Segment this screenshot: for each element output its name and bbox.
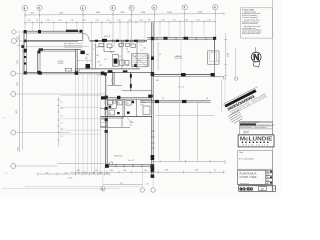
svg-text:0.9: 0.9: [147, 57, 149, 59]
svg-text:1.05: 1.05: [65, 172, 68, 174]
svg-text:2/1/: 2/1/: [243, 130, 249, 135]
svg-text:1.10: 1.10: [59, 20, 62, 22]
svg-text:1.5: 1.5: [214, 170, 216, 172]
svg-text:4.05: 4.05: [16, 110, 18, 113]
svg-text:19: 19: [261, 187, 264, 191]
svg-text:ba: ba: [118, 102, 120, 104]
svg-text:2.95 x 4.05: 2.95 x 4.05: [96, 46, 104, 48]
closet lines living side: [77, 60, 92, 62]
bedroom bottom wall: [106, 164, 152, 166]
svg-text:.65: .65: [100, 172, 102, 174]
spine wall lower: [151, 74, 153, 177]
svg-text:mclundie@architects.com: mclundie@architects.com: [257, 123, 275, 126]
grid bubble 7: [182, 5, 187, 10]
entry pier: [102, 39, 107, 42]
garage top windows ticks: [157, 37, 206, 40]
svg-text:11.2: 11.2: [130, 124, 133, 126]
svg-text:2.300: 2.300: [141, 12, 145, 14]
svg-text:1.2: 1.2: [61, 102, 63, 104]
svg-text:1.20: 1.20: [16, 37, 19, 39]
page border right: [272, 0, 274, 192]
svg-text:1.1: 1.1: [119, 56, 121, 58]
svg-text:3.000: 3.000: [167, 12, 171, 14]
svg-text:1.500: 1.500: [227, 53, 229, 57]
wall G bottom of garage block: [140, 100, 211, 102]
bottom-left terrace line: [57, 163, 110, 165]
left mid dim rail: [58, 97, 60, 147]
svg-text:t. 971 40 32 32 f. 971 40 32: t. 971 40 32 32 f. 971 40 32 33: [241, 120, 260, 123]
svg-text:1.850: 1.850: [120, 12, 124, 14]
svg-text:COTAS Y REF.: COTAS Y REF.: [240, 175, 258, 179]
grid bubble 2: [37, 5, 42, 10]
garage right wall: [214, 39, 216, 64]
svg-text:ROOM: ROOM: [58, 63, 64, 65]
patio bottom line: [153, 160, 226, 162]
faint lower-left mark: [3, 117, 6, 118]
svg-text:1.50: 1.50: [162, 20, 165, 22]
stamp fragment lower-left: [228, 110, 243, 124]
faint page bottom line: [25, 186, 140, 188]
column at entry: [80, 30, 83, 33]
svg-text:1.20: 1.20: [129, 20, 132, 22]
living top wall: [40, 48, 81, 50]
svg-text:1.0: 1.0: [140, 45, 142, 47]
title block rows: [239, 121, 272, 134]
svg-text:4.60 x 6.00: 4.60 x 6.00: [174, 58, 182, 60]
svg-text:1.50: 1.50: [18, 147, 20, 150]
left grid bubble A (diamond): [11, 29, 24, 34]
left grid bubble B: [11, 39, 24, 44]
tiny bubble right: [235, 77, 238, 80]
svg-text:0.90 1.20: 0.90 1.20: [104, 36, 110, 38]
svg-text:rev: rev: [267, 180, 270, 182]
fixtures above wall B: [137, 40, 144, 42]
left grid bubble D: [11, 92, 105, 97]
mid zone wall x=130.8: [130, 72, 132, 91]
verticals dropping to dims: [76, 146, 105, 174]
svg-text:N: N: [253, 52, 259, 62]
svg-text:dib: dib: [267, 172, 270, 174]
svg-text:NOTA DE OBRAS: NOTA DE OBRAS: [242, 8, 254, 11]
svg-text:— Las dimensiones de las: — Las dimensiones de las: [242, 20, 260, 22]
grid bubble 1: [22, 5, 27, 10]
wall B dark segments: [95, 40, 98, 42]
svg-text:0.9: 0.9: [206, 98, 208, 100]
lower dim secondary: [103, 184, 142, 186]
svg-text:1.44: 1.44: [112, 65, 115, 67]
bathroom cluster walls: [106, 97, 152, 99]
svg-text:2 Bed: 2 Bed: [130, 122, 134, 124]
outer wall top-left (wall A): [24, 30, 83, 32]
svg-text:0.9: 0.9: [61, 129, 63, 131]
svg-text:1.20: 1.20: [185, 20, 188, 22]
corridor wall (y=68.5): [80, 68, 140, 70]
svg-text:7: 7: [273, 187, 275, 191]
inner wall B (y=40.5): [24, 39, 83, 41]
svg-text:4.500: 4.500: [198, 12, 202, 14]
svg-text:1.8: 1.8: [109, 49, 111, 51]
svg-text:5: 5: [131, 8, 132, 10]
garage centerline: [180, 41, 182, 74]
entry door arc: [83, 33, 90, 40]
svg-text:1.10: 1.10: [208, 19, 211, 21]
right wall lower: [214, 64, 216, 77]
top dimension rail 2: [25, 21, 215, 22]
column at grid 2: [38, 30, 41, 33]
svg-text:1.43: 1.43: [144, 170, 147, 172]
window pairs on wing wall: [103, 101, 105, 116]
stair dim rail: [157, 42, 159, 70]
svg-text:6: 6: [154, 7, 155, 9]
wall block left mid: [24, 49, 27, 53]
svg-text:1.60: 1.60: [71, 20, 74, 22]
svg-text:Client: Client: [239, 151, 244, 154]
notes box: [241, 8, 273, 38]
faint verticals below garage right: [221, 79, 223, 112]
svg-text:A1: A1: [267, 182, 269, 185]
svg-text:1.2: 1.2: [126, 49, 128, 51]
left grid bubble E: [11, 130, 70, 135]
received stamp (diagonal): [223, 85, 267, 116]
misc tiny annotations central: [86, 48, 219, 100]
bottom scale row: [238, 184, 273, 186]
svg-text:2.30: 2.30: [110, 170, 113, 172]
stairs: [131, 54, 149, 67]
right small rail: [234, 48, 236, 77]
svg-text:1.20: 1.20: [28, 20, 31, 22]
bath fixtures: [108, 100, 132, 115]
small door arcs: [127, 43, 131, 47]
window ticks bottom wall: [116, 164, 142, 167]
svg-text:0.9: 0.9: [61, 108, 63, 110]
fireplace thick wall: [21, 45, 24, 48]
living right wall: [75, 49, 77, 74]
svg-text:3.05: 3.05: [17, 82, 19, 85]
svg-text:1 Bed: 1 Bed: [141, 102, 145, 104]
svg-text:1.7 x 2.1: 1.7 x 2.1: [97, 75, 103, 77]
svg-text:1.05: 1.05: [96, 55, 99, 57]
svg-text:0.35: 0.35: [156, 80, 159, 82]
svg-text:0.45: 0.45: [16, 39, 19, 41]
columns on bedroom left wall: [105, 96, 108, 99]
hall dividers: [92, 42, 137, 69]
svg-text:1.4: 1.4: [61, 136, 63, 138]
svg-text:2.30: 2.30: [127, 51, 130, 53]
svg-text:5.70: 5.70: [120, 183, 123, 185]
grid bubble 5: [129, 5, 134, 10]
kitchen fixtures: [107, 44, 136, 66]
svg-text:1.10: 1.10: [107, 20, 110, 22]
bedroom divider: [100, 126, 130, 128]
svg-text:2.05: 2.05: [46, 172, 49, 174]
bottom-left dim line: [38, 173, 110, 175]
revision mini column: [266, 170, 273, 184]
terrace end bubble: [109, 162, 112, 165]
svg-text:GARAGE: GARAGE: [174, 55, 182, 58]
svg-text:1.73: 1.73: [97, 61, 100, 63]
svg-text:1.2: 1.2: [109, 113, 111, 115]
row2 dark band: [240, 123, 256, 125]
svg-text:1.35: 1.35: [110, 52, 113, 54]
tick marks rail1: [25, 12, 224, 16]
garage top wall (wall C): [147, 37, 216, 39]
bottom grid bubble c: [151, 178, 155, 192]
McLUNDIE logo box: [238, 135, 274, 148]
svg-text:.9: .9: [93, 49, 94, 51]
column at grid 1: [24, 30, 27, 33]
svg-text:1.20: 1.20: [83, 20, 86, 22]
svg-text:1.1: 1.1: [61, 123, 63, 125]
svg-text:90:50: 90:50: [239, 187, 253, 192]
living room label: [58, 61, 64, 65]
under-wall-B fixtures: [99, 43, 130, 46]
svg-text:esc: esc: [267, 174, 270, 176]
svg-text:4.801: 4.801: [96, 12, 100, 14]
right dim rail: [225, 33, 227, 80]
svg-text:8: 8: [215, 7, 216, 9]
thick dark wall segment: [66, 30, 78, 32]
svg-text:fec: fec: [267, 177, 270, 179]
patio faint lines: [155, 77, 214, 162]
svg-text:1.2: 1.2: [162, 98, 164, 100]
svg-text:2.4: 2.4: [118, 45, 120, 47]
window ticks right wall: [151, 131, 155, 148]
svg-text:3.05: 3.05: [17, 60, 19, 63]
svg-text:A: A: [102, 188, 103, 191]
svg-text:2.05: 2.05: [47, 20, 50, 22]
grid bubble 4: [110, 5, 115, 10]
door jamb ticks wall B: [112, 39, 133, 42]
svg-text:1.0: 1.0: [134, 56, 136, 58]
svg-text:1.43: 1.43: [146, 184, 149, 186]
garage top wall blobs: [164, 37, 168, 40]
svg-text:ESCALA 1:50: ESCALA 1:50: [240, 182, 249, 185]
black fixture square: [86, 64, 91, 69]
svg-text:3.05: 3.05: [165, 170, 168, 172]
svg-text:1.10: 1.10: [140, 20, 143, 22]
descender ticks below rail2: [33, 23, 205, 40]
svg-text:1.43: 1.43: [123, 170, 126, 172]
svg-text:— Este plano se leera junto: — Este plano se leera junto: [242, 25, 261, 28]
svg-text:1.05: 1.05: [143, 48, 146, 50]
svg-text:1.2: 1.2: [141, 50, 143, 52]
notes text: [242, 8, 262, 35]
svg-text:1.50: 1.50: [197, 19, 200, 21]
garage inner wall: [152, 73, 215, 75]
svg-text:7: 7: [184, 7, 185, 9]
client box: [238, 151, 273, 170]
svg-text:2.60: 2.60: [126, 65, 129, 67]
left grid bubble C: [11, 71, 24, 76]
top dimension rail 1: [25, 14, 224, 15]
grid bubble 8: [213, 5, 218, 10]
drawing title box: [238, 170, 266, 184]
svg-text:1.50: 1.50: [173, 20, 176, 22]
small texts central hall: [85, 36, 143, 67]
svg-text:.80: .80: [93, 172, 95, 174]
svg-text:3: 3: [82, 8, 83, 10]
svg-text:wc: wc: [108, 102, 110, 104]
spine wall vertical: [151, 22, 153, 74]
outside fixture: [101, 119, 108, 127]
bottom grid bubble b: [140, 168, 144, 192]
window sill rects on wall D: [65, 68, 72, 71]
grid bubble 6: [152, 5, 157, 10]
svg-text:.65: .65: [85, 172, 87, 174]
svg-text:2: 2: [39, 8, 40, 10]
top dimension texts row1: [30, 12, 202, 15]
svg-text:3.6 x 4.2: 3.6 x 4.2: [128, 160, 134, 162]
svg-text:.45: .45: [106, 172, 108, 174]
svg-text:.90: .90: [148, 20, 150, 22]
svg-text:.75: .75: [78, 172, 80, 174]
terrace grid: [60, 74, 102, 152]
grid bubble 3: [80, 5, 85, 10]
dark cabinet: [112, 55, 118, 66]
svg-text:2.8: 2.8: [159, 54, 161, 56]
bottom grid bubble a: [101, 175, 105, 191]
svg-text:4: 4: [112, 8, 113, 10]
svg-text:4.7 x 6.1: 4.7 x 6.1: [178, 87, 184, 89]
svg-text:.95: .95: [36, 20, 38, 22]
svg-text:Palma de Mallorca — Edif. San: Palma de Mallorca — Edif. San Miguel 5: [240, 126, 267, 129]
svg-text:ARCHITECTS: ARCHITECTS: [242, 143, 269, 146]
bedroom mid wall: [100, 116, 152, 118]
wall block left bottom: [24, 71, 27, 74]
entry porch steps: [65, 42, 83, 48]
svg-text:15.745: 15.745: [68, 178, 73, 180]
chimney stack vertical: [37, 52, 39, 74]
left outer wall: [23, 31, 25, 74]
svg-text:1.35: 1.35: [96, 20, 99, 22]
top dimension texts row2: [28, 19, 211, 22]
lower dim rail full: [70, 171, 225, 173]
svg-text:1.5: 1.5: [61, 116, 63, 118]
dark fixture dots: [109, 106, 112, 108]
svg-text:0.45: 0.45: [86, 54, 89, 56]
svg-text:Sr. D. James Brown: Sr. D. James Brown: [239, 157, 254, 160]
left wall pilasters: [24, 40, 27, 43]
columns on wall D: [39, 72, 42, 75]
svg-text:4 Bed 70.4: 4 Bed 70.4: [114, 156, 122, 158]
bay window: [208, 51, 219, 64]
left grid bubble F: [11, 164, 57, 169]
grid leader lines: [25, 10, 215, 42]
wall y97.8 dark blocks: [101, 96, 107, 99]
svg-text:1.1: 1.1: [217, 61, 219, 63]
closet outline: [143, 106, 150, 115]
svg-text:2.02: 2.02: [99, 65, 102, 67]
svg-text:4.30: 4.30: [195, 170, 198, 172]
left dim texts (rotated): [16, 60, 20, 150]
bedroom wing left wall: [105, 72, 107, 166]
mid zone squiggle: [111, 77, 113, 84]
north arrow: [251, 47, 261, 67]
svg-text:5.101: 5.101: [59, 12, 63, 14]
svg-text:0.8: 0.8: [105, 59, 107, 61]
svg-text:1: 1: [24, 8, 25, 10]
svg-text:du: du: [127, 102, 129, 104]
mid zone wall x=113: [112, 72, 114, 85]
tick marks rail2: [25, 20, 215, 24]
svg-text:0.9: 0.9: [85, 58, 87, 60]
main mid wall (wall D): [24, 71, 107, 73]
left dimension rail: [19, 34, 21, 152]
svg-text:1.501: 1.501: [30, 12, 34, 14]
